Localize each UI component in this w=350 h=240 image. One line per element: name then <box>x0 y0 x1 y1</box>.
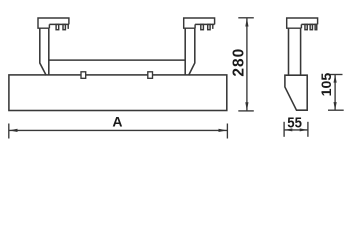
svg-text:280: 280 <box>231 48 248 77</box>
svg-text:105: 105 <box>319 73 335 97</box>
svg-text:55: 55 <box>287 114 302 131</box>
svg-text:A: A <box>112 114 122 130</box>
